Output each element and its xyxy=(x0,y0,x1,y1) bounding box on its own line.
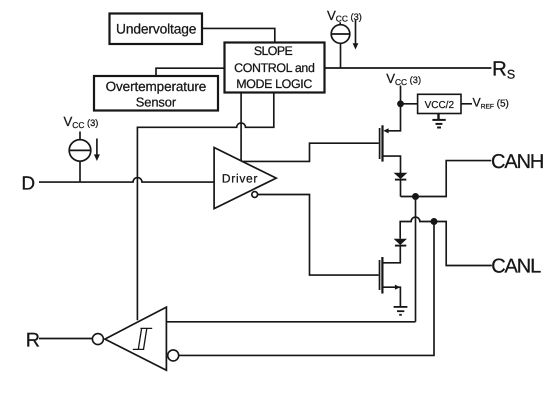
current source I2 (Vcc to D line) xyxy=(69,140,91,162)
wire Vcc node to VCC/2 block xyxy=(401,103,418,105)
ground below M2 xyxy=(394,306,408,308)
svg-text:CONTROL and: CONTROL and xyxy=(234,61,315,75)
svg-text:Driver: Driver xyxy=(222,172,258,186)
wire CANH sense line down to receiver (hop drawn on CANL rail) xyxy=(415,197,417,322)
svg-text:SLOPE: SLOPE xyxy=(254,44,293,58)
arrow M1 source xyxy=(383,128,388,133)
wire diode D1 to CANH node xyxy=(400,180,402,197)
op-amp receiver (Schmitt trigger) xyxy=(105,307,166,370)
transistor M1 (PMOS) gate bar xyxy=(379,128,381,159)
node CANL junction xyxy=(431,218,438,225)
svg-text:R: R xyxy=(26,329,40,351)
wire CANL sense line down to receiver input xyxy=(179,222,434,356)
svg-text:Sensor: Sensor xyxy=(136,95,177,110)
wire SLOPE box bottom to receiver enable rail (line B with hop over line A) xyxy=(137,93,273,321)
svg-text:VCC (3): VCC (3) xyxy=(64,114,99,130)
wire Undervoltage to SLOPE box top xyxy=(202,28,275,42)
svg-text:Overtemperature: Overtemperature xyxy=(106,79,207,94)
svg-text:MODE LOGIC: MODE LOGIC xyxy=(236,77,312,91)
arrow current direction I2 xyxy=(96,139,98,156)
inverter bubble receiver output xyxy=(92,334,103,345)
wire receiver output to R xyxy=(39,338,92,340)
node Vcc junction above M1 xyxy=(397,100,404,107)
transistor M1 channel bar xyxy=(381,125,383,161)
block Undervoltage xyxy=(110,14,203,45)
svg-text:CANH: CANH xyxy=(491,151,543,173)
wire SLOPE box to Rs node xyxy=(325,67,492,69)
wire VCC/2 to Vref xyxy=(461,103,472,105)
wire Overtemperature Sensor to SLOPE box left xyxy=(156,68,224,76)
wire SLOPE box bottom to Driver slope input (line A, hops line B) xyxy=(240,93,242,161)
op-amp Driver xyxy=(214,148,276,209)
wire Driver non-inverting output to M1 gate xyxy=(242,143,379,161)
transistor M2 (NMOS) gate bar xyxy=(379,260,381,290)
svg-text:RS: RS xyxy=(492,58,515,82)
wire CANL node rail (hops over CANH sense line) xyxy=(400,217,492,265)
svg-text:CANL: CANL xyxy=(491,256,541,278)
transistor M1 source wire to Vcc xyxy=(387,86,400,131)
diode D1 (M1 drain to CANH) xyxy=(394,173,408,179)
transistor M2 channel bar xyxy=(381,257,383,294)
wire CANH node rail xyxy=(401,161,492,197)
wire Driver inverting output to M2 gate xyxy=(258,195,379,276)
wire diode D2 to M2 drain xyxy=(382,246,400,263)
svg-text:VREF (5): VREF (5) xyxy=(473,96,509,111)
wire D input to Driver (hops over line B) xyxy=(39,178,214,183)
transistor M2 source wire to ground xyxy=(382,287,400,307)
block VCC/2 xyxy=(418,94,461,113)
diode D2 (CANL to M2 drain) xyxy=(394,239,407,245)
ground below VCC/2 xyxy=(437,114,439,120)
block SLOPE CONTROL and MODE LOGIC xyxy=(225,43,325,93)
arrow current direction I1 xyxy=(355,20,357,44)
node CANH junction xyxy=(412,193,419,200)
arrow M2 source xyxy=(395,285,400,290)
inverter bubble receiver lower input xyxy=(168,350,179,361)
svg-text:VCC (3): VCC (3) xyxy=(327,8,362,24)
svg-text:Undervoltage: Undervoltage xyxy=(116,22,197,37)
inverter bubble on Driver lower output xyxy=(252,192,258,198)
hysteresis symbol xyxy=(133,328,152,349)
svg-text:VCC (3): VCC (3) xyxy=(386,71,421,87)
transistor M1 drain wire xyxy=(383,156,401,173)
block Overtemperature Sensor xyxy=(94,76,218,111)
wire receiver non-inverting input from CANH sense xyxy=(166,321,415,323)
current source I1 (Vcc to Rs line) xyxy=(331,25,350,44)
svg-text:D: D xyxy=(21,173,35,194)
svg-text:VCC/2: VCC/2 xyxy=(425,100,455,111)
